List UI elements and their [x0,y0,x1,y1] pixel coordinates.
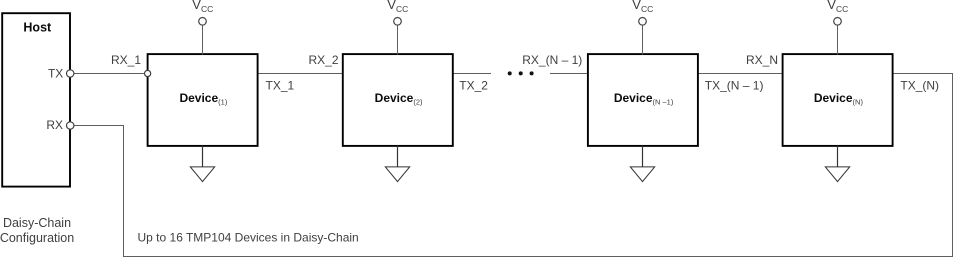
wire: TX_1 Device(1) to Device(2) [257,73,343,75]
wire: bottom return bus [123,256,953,258]
ground of Device(N-1) [630,146,654,182]
wire: RX_(N-1) input stub to Device(N-1) [550,73,589,75]
host block [2,13,70,186]
wire: Host TX to Device(1) RX_1 node [70,73,148,75]
device U2 block [343,54,453,146]
svg-text:Up to 16 TMP104 Devices in Dai: Up to 16 TMP104 Devices in Daisy-Chain [138,231,359,245]
svg-text:RX_2: RX_2 [308,53,338,67]
ground of Device(1) [190,146,214,182]
power V_CC of Device(N) [827,0,848,55]
svg-text:Daisy-Chain: Daisy-Chain [3,216,71,230]
svg-text:TX_1: TX_1 [266,78,295,92]
ground of Device(2) [385,146,409,182]
svg-text:Host: Host [23,21,52,35]
svg-text:TX: TX [48,66,63,80]
wire: TX_(N-1) Device(N-1) to Device(N) [698,73,784,75]
wire: right-side vertical return from TX_(N) [952,73,953,257]
svg-text:TX_(N – 1): TX_(N – 1) [705,78,764,92]
svg-text:RX_N: RX_N [746,53,778,67]
svg-text:Configuration: Configuration [0,231,74,245]
wire: RX return vertical drop at x=123 [123,126,125,257]
svg-text:TX_(N): TX_(N) [900,78,939,92]
device U1 block [148,54,258,146]
device U4 block Device(N) [783,54,893,146]
wire: Device(N) TX_(N) output [892,73,953,75]
svg-text:RX_1: RX_1 [111,53,141,67]
power V_CC of Device(1) [192,0,213,55]
node: RX_1 junction on Device(1) input [145,70,151,76]
terminal: Host RX pin [67,122,74,129]
device U3 block Device(N-1) [588,54,698,146]
wire: Host RX horizontal segment [70,125,124,127]
terminal: Host TX pin [67,70,74,77]
wire: TX_2 Device(2) output stub [453,73,491,75]
ground of Device(N) [825,146,849,182]
power V_CC of Device(2) [387,0,408,55]
svg-text:RX: RX [46,118,63,132]
caption: Daisy-Chain Configuration [0,216,74,245]
power V_CC of Device(N-1) [632,0,653,55]
svg-text:TX_2: TX_2 [459,78,488,92]
svg-text:RX_(N – 1): RX_(N – 1) [522,53,582,67]
ellipsis: chain continuation dots [508,71,534,75]
